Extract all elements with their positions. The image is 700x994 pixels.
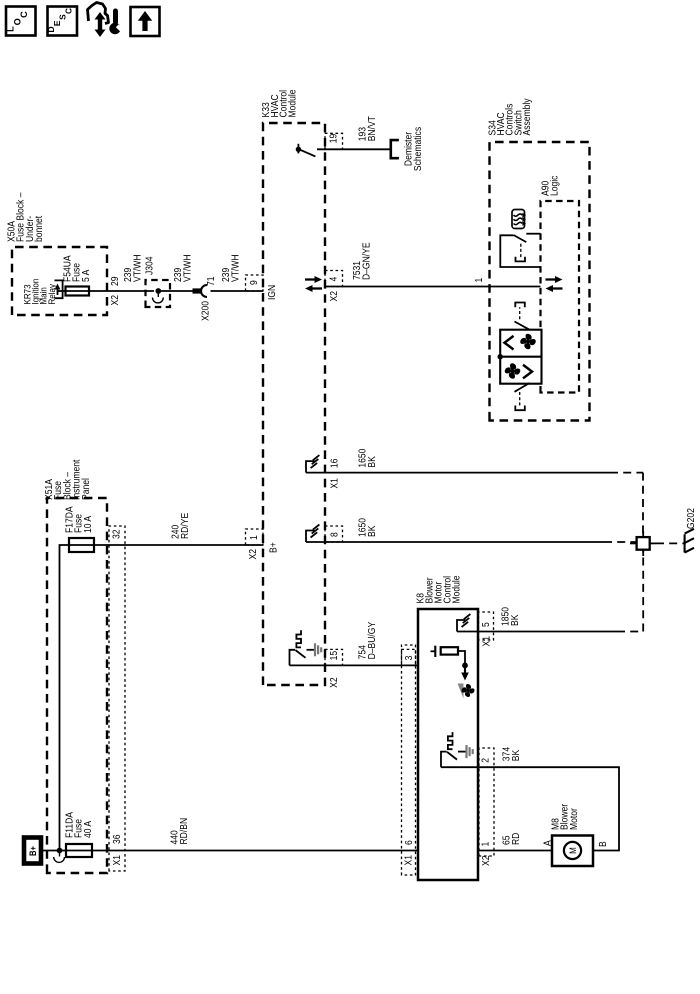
pin 1 K33 <box>247 535 259 540</box>
wire X200 to K33 pin 9 <box>211 290 264 292</box>
node splice junction at B+ <box>54 848 65 863</box>
svg-text:X2: X2 <box>327 677 339 687</box>
svg-text:Relay: Relay <box>46 283 57 304</box>
svg-text:Panel: Panel <box>79 478 91 500</box>
wire 1850 BK <box>457 550 643 632</box>
svg-text:BK: BK <box>508 614 520 626</box>
G202 label <box>684 508 696 529</box>
svg-text:VT/WH: VT/WH <box>229 254 241 282</box>
pin 2 <box>479 758 491 763</box>
svg-text:E: E <box>52 20 62 26</box>
wire label 374 BK <box>500 747 521 761</box>
A90 Logic box <box>541 201 580 393</box>
K8 Blower Motor Control Module box <box>418 609 478 880</box>
svg-text:X1: X1 <box>402 855 414 865</box>
svg-text:71: 71 <box>204 276 216 286</box>
svg-text:19: 19 <box>327 134 339 144</box>
rear demister button icon <box>512 210 526 229</box>
svg-text:BK: BK <box>509 749 521 761</box>
pin 36 <box>110 834 122 844</box>
F54UA label <box>61 255 91 282</box>
wire label 193 BN/VT <box>356 116 377 141</box>
X51A label <box>42 459 91 500</box>
node J304 splice <box>153 288 164 303</box>
svg-text:9: 9 <box>247 280 259 285</box>
S34 label <box>486 98 532 135</box>
pin 1 S34 <box>472 278 484 283</box>
svg-text:M: M <box>567 847 578 854</box>
svg-text:16: 16 <box>328 459 340 469</box>
wire label 239 VT/WH c <box>219 254 240 282</box>
wire G202 drop <box>656 542 685 544</box>
svg-text:D: D <box>46 26 56 32</box>
fan speed switch boxes <box>498 330 542 384</box>
svg-text:C: C <box>19 11 29 18</box>
wire KR73 to fuse <box>58 290 90 292</box>
fan icon high <box>520 333 536 349</box>
pin 19 <box>327 134 339 144</box>
icon LOC box <box>6 7 36 36</box>
icon up arrow box <box>131 7 160 36</box>
ground internal K33 pin 8 <box>306 525 319 543</box>
connector X2 label at K33 pin 1 <box>246 549 258 559</box>
svg-text:3: 3 <box>402 656 414 661</box>
driver internal K8 pin 2 <box>441 732 473 767</box>
ground internal K33 pin 16 <box>306 455 319 473</box>
svg-text:BK: BK <box>365 525 377 537</box>
svg-text:2: 2 <box>479 758 491 763</box>
M8 label <box>549 804 579 830</box>
wire 240 RD/YE down to K33 <box>94 544 263 546</box>
wire label 1650 BK b <box>356 518 377 537</box>
wire label 754 D-BU/GY <box>356 621 377 659</box>
svg-text:10 A: 10 A <box>81 515 93 533</box>
wire J304 to X200 <box>158 290 193 292</box>
net B+ label <box>267 542 279 553</box>
svg-text:40 A: 40 A <box>81 820 93 838</box>
blower control driver in K33 <box>290 630 322 665</box>
fan speed down arrow <box>523 365 532 379</box>
fan icon low <box>504 363 520 379</box>
svg-text:4: 4 <box>327 277 339 282</box>
svg-text:VT/WH: VT/WH <box>131 254 143 282</box>
wire feed to F17DA branch <box>60 545 95 851</box>
K33 HVAC Control Module box <box>263 123 325 685</box>
svg-text:15: 15 <box>327 651 339 661</box>
wire label 239 VT/WH a <box>121 254 142 282</box>
ground G202 <box>685 529 694 553</box>
svg-text:B+: B+ <box>267 542 279 553</box>
svg-text:36: 36 <box>110 834 122 844</box>
svg-text:RD: RD <box>509 832 521 845</box>
X200 label <box>199 301 211 321</box>
S34 HVAC Controls Switch Assembly box <box>490 142 590 421</box>
connector X2 label at pin 29 <box>108 295 120 305</box>
svg-text:IGN: IGN <box>265 285 277 300</box>
svg-text:5: 5 <box>479 622 491 627</box>
wire label 65 RD <box>500 832 521 845</box>
pin 29 <box>108 276 120 286</box>
svg-text:Module: Module <box>286 89 298 117</box>
terminal A <box>541 840 553 846</box>
svg-text:B: B <box>596 841 608 847</box>
svg-text:Schematics: Schematics <box>411 127 423 171</box>
relay KR73 contact <box>55 280 63 298</box>
svg-text:BK: BK <box>365 456 377 468</box>
pin 16 <box>328 459 340 469</box>
wire 7531 from K33 pin 4 <box>325 286 541 288</box>
wire label 7531 D-GN/YE <box>350 242 371 280</box>
svg-text:X2: X2 <box>479 856 491 866</box>
pin 1 K8 <box>479 842 491 847</box>
wire 193 BN/VT <box>317 148 390 150</box>
K8 right connector strip X2 <box>479 748 494 856</box>
wire label 440 RD/BN <box>168 818 189 845</box>
pin 4 <box>327 277 339 282</box>
fuse F17DA <box>69 538 94 552</box>
wire label 1850 BK <box>499 607 520 626</box>
X51A Fuse Block - Instrument Panel box <box>47 498 107 873</box>
pin 15 <box>327 651 339 661</box>
wire 1650 BK pin 16 <box>306 473 643 537</box>
connector X2 label at pin 15 <box>327 677 339 687</box>
connector X1 label at pin 6 <box>402 855 414 865</box>
svg-text:B+: B+ <box>27 846 38 856</box>
icon DESC box <box>46 7 77 36</box>
pin 3 <box>402 656 414 661</box>
pin 4 box <box>325 271 343 287</box>
fuse F54UA <box>66 287 90 296</box>
Demister Schematics reference label <box>402 127 423 171</box>
terminal B <box>596 841 608 847</box>
connector X2 label at pin 4 <box>327 291 339 301</box>
icon vehicle adjust <box>88 3 123 38</box>
svg-text:Logic: Logic <box>548 175 560 196</box>
node G202 splice block <box>630 531 656 556</box>
pin 5 <box>479 622 491 627</box>
svg-text:29: 29 <box>108 276 120 286</box>
pin 15 box <box>325 649 343 665</box>
switch fan up <box>515 303 530 330</box>
pin 71 <box>204 276 216 286</box>
svg-text:1: 1 <box>479 842 491 847</box>
X50A Fuse Block - Under-bonnet box <box>12 247 107 315</box>
connector X1 label at pin 5 <box>480 636 492 646</box>
pin 3 box <box>402 649 416 665</box>
J304 splice pack box <box>146 280 171 307</box>
svg-text:O: O <box>12 18 22 25</box>
F17DA label <box>63 506 93 533</box>
svg-text:bonnet: bonnet <box>32 215 44 242</box>
svg-text:X1: X1 <box>110 855 122 865</box>
pin 9 <box>247 280 259 285</box>
switch demister button S34 <box>500 234 541 267</box>
svg-text:X2: X2 <box>246 549 258 559</box>
fan icon K8 output <box>458 684 475 699</box>
connector X1 label at pin 36 <box>110 855 122 865</box>
svg-text:G202: G202 <box>684 508 696 529</box>
svg-text:1: 1 <box>472 278 484 283</box>
pin 8 box <box>325 526 343 542</box>
wire label 240 RD/YE <box>169 513 190 539</box>
serial data arrows A90 <box>546 276 563 292</box>
serial data arrows K33 <box>305 276 322 292</box>
pin 5 strip <box>479 612 494 640</box>
wire 754 D-BU/GY <box>290 664 419 666</box>
KR73 label <box>22 279 57 305</box>
svg-text:RD/YE: RD/YE <box>178 513 190 539</box>
node K8 junction <box>462 663 468 669</box>
svg-text:X1: X1 <box>328 478 340 488</box>
J304 label <box>143 256 155 275</box>
wire label 1650 BK a <box>356 449 377 468</box>
svg-text:BN/VT: BN/VT <box>365 116 377 141</box>
wire B+ to junction <box>42 850 60 852</box>
arrow to motor drive <box>461 665 469 680</box>
pin 19 box <box>325 133 343 149</box>
pin 32 <box>110 529 122 539</box>
connector X2 label at K8 pin 1 <box>479 856 491 866</box>
connector X1 label at pin 16 <box>328 478 340 488</box>
X51A connector strip <box>109 526 125 871</box>
K33 label <box>259 89 297 117</box>
svg-text:J304: J304 <box>143 256 155 275</box>
pin 1 box K33 X2 <box>246 529 264 545</box>
X50A label <box>5 192 45 242</box>
M8 Blower Motor box <box>552 836 593 867</box>
svg-text:X2: X2 <box>108 295 120 305</box>
pin 8 <box>328 532 340 537</box>
wire IGN feed down <box>89 290 154 292</box>
svg-text:Module: Module <box>450 575 462 603</box>
svg-text:D–BU/GY: D–BU/GY <box>365 621 377 659</box>
svg-text:X2: X2 <box>327 291 339 301</box>
svg-text:X1: X1 <box>480 636 492 646</box>
K8 left connector strip <box>402 645 416 875</box>
B+ battery terminal <box>24 838 41 864</box>
svg-text:6: 6 <box>402 840 414 845</box>
svg-text:D–GN/YE: D–GN/YE <box>360 242 372 280</box>
svg-text:L: L <box>6 26 16 32</box>
svg-text:Assembly: Assembly <box>520 98 532 135</box>
svg-text:5 A: 5 A <box>79 269 91 282</box>
wire 65 RD <box>478 850 552 852</box>
svg-text:32: 32 <box>110 529 122 539</box>
switch demister output driver <box>296 144 316 157</box>
transistor blower driver <box>431 646 466 666</box>
off-page connector to Demister Schematics <box>391 140 399 158</box>
K8 label <box>414 575 462 603</box>
F11DA label <box>63 811 93 838</box>
svg-text:A: A <box>541 840 553 846</box>
svg-text:Motor: Motor <box>567 808 579 830</box>
svg-text:X200: X200 <box>199 301 211 321</box>
svg-text:VT/WH: VT/WH <box>181 254 193 282</box>
svg-text:C: C <box>63 8 73 14</box>
A90 label <box>539 175 560 196</box>
wire 1650 BK pin 8 <box>306 541 637 543</box>
svg-text:1: 1 <box>247 535 259 540</box>
wire main feed down <box>60 850 419 852</box>
net IGN label <box>265 285 277 300</box>
wire 374 BK <box>441 767 619 850</box>
wire label 239 VT/WH b <box>171 254 192 282</box>
svg-text:RD/BN: RD/BN <box>177 818 189 845</box>
svg-text:8: 8 <box>328 532 340 537</box>
pin 6 <box>402 840 414 845</box>
fan speed up arrow <box>505 336 514 350</box>
switch fan down <box>515 383 530 410</box>
ground internal K8 pin 5 <box>457 614 470 632</box>
pin 9 box <box>246 275 264 291</box>
fuse F11DA <box>66 844 92 857</box>
connector X200 <box>193 285 208 297</box>
